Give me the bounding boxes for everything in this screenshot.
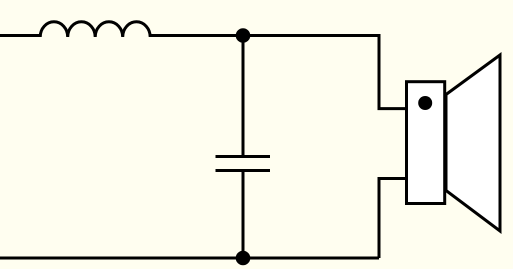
node: top junction dot	[236, 28, 251, 43]
speaker polarity dot	[418, 96, 432, 110]
speaker cone	[446, 55, 500, 231]
inductor L1	[40, 22, 150, 37]
wire: top-left lead into inductor	[0, 34, 40, 37]
wire: top rail from inductor to right corner, down to speaker top stub	[150, 36, 406, 109]
wire: capacitor bottom lead	[242, 171, 245, 259]
capacitor C1 bottom plate	[216, 169, 271, 172]
wire: bottom rail	[0, 257, 379, 260]
wire: bottom riser to speaker bottom stub	[379, 179, 407, 259]
capacitor C1 top plate	[216, 155, 271, 158]
speaker body LS1	[407, 82, 445, 204]
node: bottom junction dot	[236, 251, 251, 266]
wire: capacitor top lead	[242, 36, 245, 157]
